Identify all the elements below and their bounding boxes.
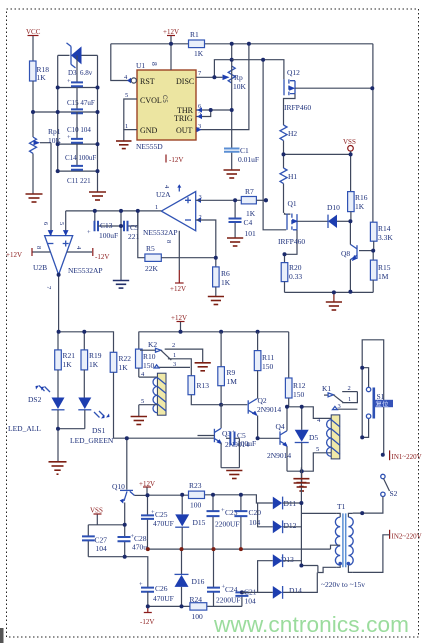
ground (D5/Q4) bbox=[294, 471, 310, 491]
svg-text:+: + bbox=[139, 581, 143, 588]
svg-text:LED_GREEN: LED_GREEN bbox=[70, 436, 114, 445]
pin 5 CVOL bbox=[124, 92, 137, 130]
power flag VSS (psu) bbox=[90, 507, 103, 525]
svg-text:VSS: VSS bbox=[343, 138, 356, 146]
wire 0V rail y549.1 bbox=[148, 548, 331, 550]
op-amp U2A NE5532AP bbox=[143, 184, 202, 293]
svg-text:1K: 1K bbox=[246, 209, 256, 218]
resistor R23 100 bbox=[189, 481, 205, 510]
svg-text:1: 1 bbox=[125, 123, 128, 130]
svg-text:IRFP460: IRFP460 bbox=[278, 237, 305, 246]
wire T1 bottom-left tap bbox=[301, 566, 336, 573]
svg-text:VSS: VSS bbox=[90, 507, 103, 515]
svg-text:104: 104 bbox=[245, 597, 257, 606]
svg-text:Q4: Q4 bbox=[276, 422, 285, 431]
svg-text:NE5532AP: NE5532AP bbox=[143, 228, 178, 237]
svg-text:NE5532AP: NE5532AP bbox=[68, 266, 103, 275]
ground (LEDs) bbox=[49, 462, 67, 474]
resistor R19 1K bbox=[81, 332, 102, 398]
wire IN1 node bbox=[390, 450, 422, 461]
svg-text:IN2~220V: IN2~220V bbox=[392, 533, 422, 541]
svg-text:复位: 复位 bbox=[376, 399, 390, 408]
svg-text:+: + bbox=[87, 229, 91, 236]
diode D12 bbox=[258, 503, 302, 533]
transistor Q3 2N9014 bbox=[198, 428, 250, 467]
svg-text:1: 1 bbox=[173, 352, 176, 359]
inductor H1 bbox=[280, 154, 297, 213]
zener diode D3 6.8v bbox=[67, 43, 93, 77]
svg-text:2: 2 bbox=[172, 342, 175, 349]
wire C27/C28 bottom row to C26 column bbox=[88, 557, 148, 588]
junction dots K2 area bbox=[219, 403, 223, 407]
svg-text:3: 3 bbox=[173, 361, 176, 368]
power flag VSS (circle) bbox=[343, 138, 356, 154]
resistor R14 3.3K bbox=[370, 222, 393, 250]
svg-text:NE555D: NE555D bbox=[136, 142, 163, 151]
ground (C1) bbox=[224, 170, 241, 178]
junction dots mid bbox=[93, 198, 268, 259]
svg-text:5: 5 bbox=[316, 446, 319, 453]
pin 1 GND bbox=[124, 123, 137, 141]
svg-text:2200UF: 2200UF bbox=[215, 520, 240, 529]
wire right rail x372.9 bbox=[372, 44, 374, 222]
svg-text:H1: H1 bbox=[288, 172, 297, 181]
svg-text:www.cntronics.com: www.cntronics.com bbox=[213, 612, 409, 637]
svg-text:DS1: DS1 bbox=[92, 426, 106, 435]
wire top row y55 bbox=[58, 54, 98, 56]
transistor Q2 2N9014 bbox=[248, 396, 281, 438]
svg-text:R20: R20 bbox=[289, 263, 302, 272]
svg-text:-12V: -12V bbox=[95, 253, 109, 261]
svg-text:R15: R15 bbox=[378, 263, 391, 272]
capacitor C13 100uF bbox=[87, 211, 121, 240]
wire row y112 to R18 line bbox=[33, 111, 58, 113]
junction dots psu left bbox=[123, 436, 244, 608]
junction dots rectifier bbox=[299, 501, 303, 568]
capacitor C21 104 bbox=[235, 588, 256, 607]
capacitor C11 221 bbox=[67, 144, 91, 185]
svg-text:1K: 1K bbox=[119, 363, 129, 372]
LED DS2 LED_ALL bbox=[8, 386, 65, 434]
svg-text:R16: R16 bbox=[355, 193, 368, 202]
svg-text:100uF: 100uF bbox=[99, 231, 118, 240]
op-amp U2B NE5532AP bbox=[6, 222, 109, 290]
svg-text:C1: C1 bbox=[240, 146, 249, 155]
wire AC column x301.4 with bar marks bbox=[300, 467, 302, 565]
junction dot U2B out bbox=[57, 273, 61, 277]
svg-text:8: 8 bbox=[165, 240, 172, 243]
ground (left, below Rp1) bbox=[26, 194, 43, 202]
diode D10 bbox=[327, 203, 350, 228]
diode D5 bbox=[295, 407, 319, 471]
svg-text:LED_ALL: LED_ALL bbox=[8, 424, 41, 433]
555 pin labels inside bbox=[140, 77, 194, 135]
svg-text:R11: R11 bbox=[262, 353, 274, 362]
pin 7 DISC bbox=[196, 60, 232, 78]
svg-text:3: 3 bbox=[338, 403, 341, 410]
svg-text:5: 5 bbox=[58, 222, 65, 225]
svg-text:0.01uF: 0.01uF bbox=[238, 155, 259, 164]
svg-text:C11 221: C11 221 bbox=[67, 177, 91, 185]
wire left cap rail bbox=[57, 55, 59, 171]
wire pot column x231.7 bbox=[231, 44, 233, 149]
wire output row y210.9 bbox=[66, 210, 162, 212]
svg-text:Q2: Q2 bbox=[258, 396, 267, 405]
power flag VCC bbox=[26, 28, 41, 61]
wire rows y87.5 y112 y144 y171 bbox=[58, 88, 98, 172]
resistor R15 1M bbox=[370, 251, 390, 293]
potentiometer Rp 10K bbox=[214, 66, 246, 91]
svg-text:0.33: 0.33 bbox=[289, 272, 302, 281]
svg-text:C13: C13 bbox=[100, 221, 113, 230]
svg-text:1K: 1K bbox=[63, 360, 73, 369]
svg-text:OUT: OUT bbox=[176, 126, 193, 135]
svg-text:+: + bbox=[67, 134, 71, 141]
wire +12V bus right segment bbox=[139, 331, 289, 333]
svg-text:104: 104 bbox=[96, 544, 108, 553]
wire U2A pin3 row y200.3 bbox=[196, 199, 242, 201]
555 VCC pin wire bbox=[170, 44, 172, 70]
wire R12 node to K1 coil pin4 bbox=[287, 407, 331, 419]
resistor R11 150 bbox=[254, 332, 274, 399]
resistor R9 1M bbox=[218, 332, 237, 405]
svg-text:Rp: Rp bbox=[234, 73, 243, 82]
power flag -12V (under 555) bbox=[166, 155, 183, 165]
capacitor C15 47uF bbox=[67, 55, 95, 107]
power flag +12V (bus) bbox=[171, 314, 187, 332]
svg-text:R13: R13 bbox=[197, 381, 210, 390]
junction dots 555 area bbox=[169, 42, 251, 112]
svg-text:100: 100 bbox=[190, 501, 202, 510]
capacitor C1 0.01uF bbox=[224, 146, 259, 170]
svg-text:R9: R9 bbox=[227, 368, 236, 377]
svg-text:+12V: +12V bbox=[163, 28, 179, 36]
capacitor C23 2200UF bbox=[207, 495, 240, 549]
junction dots 0V rail (maroon) bbox=[146, 547, 243, 551]
ground (K2 pin2) bbox=[195, 363, 211, 371]
svg-text:Q8: Q8 bbox=[341, 249, 350, 258]
svg-text:TRIG: TRIG bbox=[174, 114, 193, 123]
wire RST riser bbox=[111, 44, 131, 81]
wire right cap rail bbox=[97, 55, 99, 192]
resistor R20 0.33 bbox=[281, 254, 302, 292]
svg-text:D3: D3 bbox=[68, 69, 77, 77]
svg-text:R14: R14 bbox=[378, 224, 391, 233]
resistor R1 bbox=[189, 30, 205, 58]
svg-text:CVOL: CVOL bbox=[140, 96, 162, 105]
wire +12V top row y494.8 bbox=[148, 495, 273, 503]
svg-text:2: 2 bbox=[348, 385, 351, 392]
svg-text:8: 8 bbox=[35, 246, 42, 249]
capacitor C26 470UF bbox=[139, 581, 174, 606]
wire VSS row to Q10 emitter bbox=[88, 524, 124, 526]
svg-text:H2: H2 bbox=[288, 129, 297, 138]
power flag +12V (psu) bbox=[139, 480, 155, 495]
wire U2A pin2 loop bbox=[196, 220, 216, 258]
svg-text:2N9014: 2N9014 bbox=[267, 451, 291, 460]
svg-text:+12V: +12V bbox=[6, 251, 22, 259]
svg-text:3.3K: 3.3K bbox=[378, 233, 393, 242]
pin 6 THR bbox=[196, 103, 232, 113]
diode D13 bbox=[258, 554, 302, 592]
svg-text:104: 104 bbox=[249, 518, 261, 527]
pin 2 TRIG bbox=[196, 110, 211, 119]
svg-text:5: 5 bbox=[141, 398, 144, 405]
junction dots top-right bbox=[261, 58, 374, 157]
svg-text:IN1~220V: IN1~220V bbox=[392, 453, 422, 461]
resistor R18 bbox=[30, 61, 50, 137]
svg-text:+12V: +12V bbox=[171, 314, 187, 322]
svg-text:R12: R12 bbox=[293, 381, 306, 390]
transistor Q8 bbox=[341, 221, 373, 291]
svg-text:+12V: +12V bbox=[170, 285, 186, 293]
svg-text:470UF: 470UF bbox=[153, 519, 174, 528]
pin 4 RST bubble bbox=[124, 74, 136, 83]
resistor R6 1K bbox=[213, 258, 231, 297]
svg-text:DISC: DISC bbox=[176, 77, 194, 86]
svg-text:Q10: Q10 bbox=[112, 482, 125, 491]
junction dots top-left bbox=[31, 86, 100, 174]
ground (C4) bbox=[227, 238, 243, 246]
svg-text:C15 47uF: C15 47uF bbox=[67, 99, 95, 107]
switch S2 bbox=[381, 474, 398, 498]
svg-text:C26: C26 bbox=[155, 584, 168, 593]
junction dots Q1/Q8 bbox=[264, 198, 375, 294]
LED DS1 LED_GREEN bbox=[70, 398, 114, 446]
transformer T1 bbox=[321, 502, 365, 589]
diode D11 bbox=[273, 497, 302, 510]
svg-text:D15: D15 bbox=[193, 518, 206, 527]
svg-text:S2: S2 bbox=[390, 489, 398, 498]
svg-text:Q12: Q12 bbox=[287, 68, 300, 77]
relay contact K2 bbox=[140, 340, 203, 376]
capacitor C5 100uF bbox=[221, 429, 256, 468]
capacitor C10 104 bbox=[67, 88, 91, 135]
svg-text:2N9014: 2N9014 bbox=[257, 405, 281, 414]
wire S-loop top bbox=[362, 340, 384, 455]
ground (C9/C13 net) bbox=[113, 281, 129, 289]
wire -12V row y606.4 bbox=[148, 605, 242, 607]
svg-text:8: 8 bbox=[150, 62, 159, 66]
wire IN2 node bbox=[353, 530, 422, 573]
svg-text:Rp1: Rp1 bbox=[48, 127, 61, 136]
svg-text:1: 1 bbox=[155, 204, 158, 211]
svg-text:22K: 22K bbox=[145, 264, 159, 273]
resistor R21 1K bbox=[55, 332, 76, 398]
capacitor C25 470UF bbox=[141, 495, 174, 549]
svg-text:Q1: Q1 bbox=[288, 199, 297, 208]
inductor H2 bbox=[280, 125, 297, 154]
capacitor C14 100uF bbox=[65, 112, 96, 162]
relay contact K1 bbox=[322, 384, 357, 410]
relay coil K2 bbox=[139, 371, 166, 417]
diode D15 bbox=[175, 495, 205, 549]
wire pot wiper to U2B pin6 bbox=[50, 143, 52, 236]
svg-text:DS2: DS2 bbox=[28, 395, 42, 404]
svg-text:T1: T1 bbox=[337, 502, 346, 511]
svg-text:1M: 1M bbox=[378, 272, 389, 281]
wire +12V rail y44 bbox=[111, 43, 373, 45]
power flag +12V (555 supply) bbox=[163, 28, 179, 44]
svg-text:D5: D5 bbox=[309, 433, 318, 442]
capacitor C24 2200UF bbox=[207, 549, 241, 606]
svg-text:R21: R21 bbox=[63, 351, 76, 360]
svg-text:R6: R6 bbox=[221, 269, 230, 278]
svg-text:C20: C20 bbox=[249, 508, 262, 517]
capacitor C27 104 bbox=[82, 525, 107, 557]
svg-text:470UF: 470UF bbox=[153, 594, 174, 603]
svg-text:1K: 1K bbox=[194, 49, 204, 58]
svg-text:1K: 1K bbox=[89, 360, 99, 369]
junction dots S area bbox=[360, 366, 385, 515]
svg-text:-12V: -12V bbox=[140, 618, 154, 626]
svg-text:R22: R22 bbox=[119, 354, 132, 363]
svg-text:1M: 1M bbox=[227, 377, 238, 386]
svg-text:C5: C5 bbox=[161, 95, 167, 103]
junction dots Q2/Q4/D5 bbox=[256, 405, 304, 473]
capacitor C20 104 bbox=[234, 495, 261, 549]
svg-text:150: 150 bbox=[143, 361, 155, 370]
svg-text:D16: D16 bbox=[192, 577, 205, 586]
svg-text:C4: C4 bbox=[244, 218, 253, 227]
resistor R7 bbox=[241, 187, 266, 218]
svg-text:K1: K1 bbox=[322, 384, 331, 393]
resistor R22 1K bbox=[110, 352, 215, 438]
svg-text:D14: D14 bbox=[289, 586, 302, 595]
wire Q2 base row bbox=[221, 404, 247, 406]
svg-text:R23: R23 bbox=[189, 481, 202, 490]
wire S1 parallel column bbox=[361, 368, 363, 438]
svg-text:150: 150 bbox=[262, 362, 274, 371]
svg-text:U2A: U2A bbox=[156, 190, 171, 199]
pin 3 OUT bbox=[196, 44, 249, 133]
resistor R10 150 bbox=[136, 332, 156, 377]
ground (R6) bbox=[208, 297, 224, 305]
wire Q4 emitter bottom row bbox=[287, 453, 331, 471]
resistor R13 bbox=[188, 376, 221, 405]
svg-text:RST: RST bbox=[140, 77, 155, 86]
transistor Q1 IRFP460 bbox=[170, 0, 328, 254]
wire U2B pin5 riser bbox=[65, 211, 67, 236]
junction dots bus/led bbox=[56, 330, 260, 431]
svg-text:K2: K2 bbox=[148, 340, 157, 349]
wire x221 down to Q3 collector bbox=[220, 405, 222, 429]
wire T1 top tap bbox=[301, 512, 336, 514]
svg-text:R7: R7 bbox=[245, 187, 254, 196]
transistor Q12 IRFP460 bbox=[284, 68, 373, 125]
ground (555 pin1) bbox=[116, 141, 132, 149]
ground (Q1/Q8 source row) bbox=[326, 292, 342, 310]
relay coil K1 bbox=[316, 415, 340, 459]
wire C-net column x121 bbox=[120, 211, 122, 281]
wire LED cathode row bbox=[58, 429, 85, 462]
op IC U1 NE555D body bbox=[136, 61, 196, 151]
switch S1 (pushbutton) bbox=[362, 368, 393, 438]
svg-text:R10: R10 bbox=[143, 352, 156, 361]
svg-text:GND: GND bbox=[140, 126, 158, 135]
wire S2 to T1 row bbox=[353, 497, 383, 514]
svg-text:10K: 10K bbox=[233, 82, 247, 91]
transistor Q10 bbox=[112, 438, 148, 525]
wire Q2 emitter to Q4 base bbox=[258, 437, 280, 439]
diode D14 bbox=[242, 573, 317, 599]
resistor R16 bbox=[348, 154, 368, 221]
ground (right cap rail) bbox=[89, 192, 106, 200]
capacitor C4 101 bbox=[229, 200, 257, 238]
svg-text:D12: D12 bbox=[284, 521, 297, 530]
svg-text:C25: C25 bbox=[155, 510, 168, 519]
resistor R24 100 bbox=[190, 595, 207, 621]
svg-text:-12V: -12V bbox=[169, 156, 183, 164]
capacitor C28 470u bbox=[118, 525, 148, 557]
svg-text:1K: 1K bbox=[37, 73, 47, 82]
svg-text:R19: R19 bbox=[89, 351, 102, 360]
ground (K2 pin5) bbox=[131, 417, 147, 425]
svg-text:1K: 1K bbox=[221, 278, 231, 287]
svg-text:100: 100 bbox=[192, 612, 204, 621]
transistor Q4 2N9014 bbox=[267, 407, 291, 471]
wire gate feed to Q12 bbox=[232, 60, 284, 80]
svg-text:+: + bbox=[67, 78, 71, 85]
svg-text:VCC: VCC bbox=[26, 28, 41, 36]
svg-text:1K: 1K bbox=[355, 202, 365, 211]
ground (Q3/C5) bbox=[226, 471, 242, 479]
wire bottom row y292.4 bbox=[285, 291, 374, 293]
svg-text:470u: 470u bbox=[132, 543, 147, 552]
svg-text:D10: D10 bbox=[327, 203, 340, 212]
svg-text:5: 5 bbox=[125, 92, 128, 99]
svg-text:1: 1 bbox=[348, 396, 351, 403]
resistor R12 150 bbox=[285, 332, 305, 407]
svg-text:~220v to ~15v: ~220v to ~15v bbox=[321, 580, 365, 589]
svg-text:6.8v: 6.8v bbox=[80, 69, 93, 77]
diode D16 bbox=[175, 549, 205, 606]
capacitor C9 221 bbox=[121, 211, 140, 241]
svg-text:150: 150 bbox=[293, 390, 305, 399]
wire +12V bus left segment bbox=[59, 332, 114, 353]
svg-text:C14 100uF: C14 100uF bbox=[65, 154, 96, 162]
svg-text:U1: U1 bbox=[136, 61, 145, 70]
svg-text:IRFP460: IRFP460 bbox=[284, 103, 311, 112]
corner mark bbox=[0, 628, 4, 643]
svg-text:101: 101 bbox=[245, 229, 257, 238]
wire VSS row y154.4 bbox=[284, 153, 351, 155]
potentiometer Rp1 bbox=[30, 127, 62, 194]
svg-text:S1: S1 bbox=[377, 392, 385, 401]
resistor R5 22K bbox=[138, 211, 216, 273]
power flag -12V bbox=[140, 606, 154, 626]
wire U2B output down to bus bbox=[58, 275, 60, 332]
svg-text:R5: R5 bbox=[146, 244, 155, 253]
wire gate column x263.1 down to Q1 gate bbox=[263, 60, 286, 230]
svg-text:C10 104: C10 104 bbox=[67, 126, 91, 134]
svg-text:R1: R1 bbox=[190, 30, 199, 39]
svg-text:U2B: U2B bbox=[33, 263, 47, 272]
